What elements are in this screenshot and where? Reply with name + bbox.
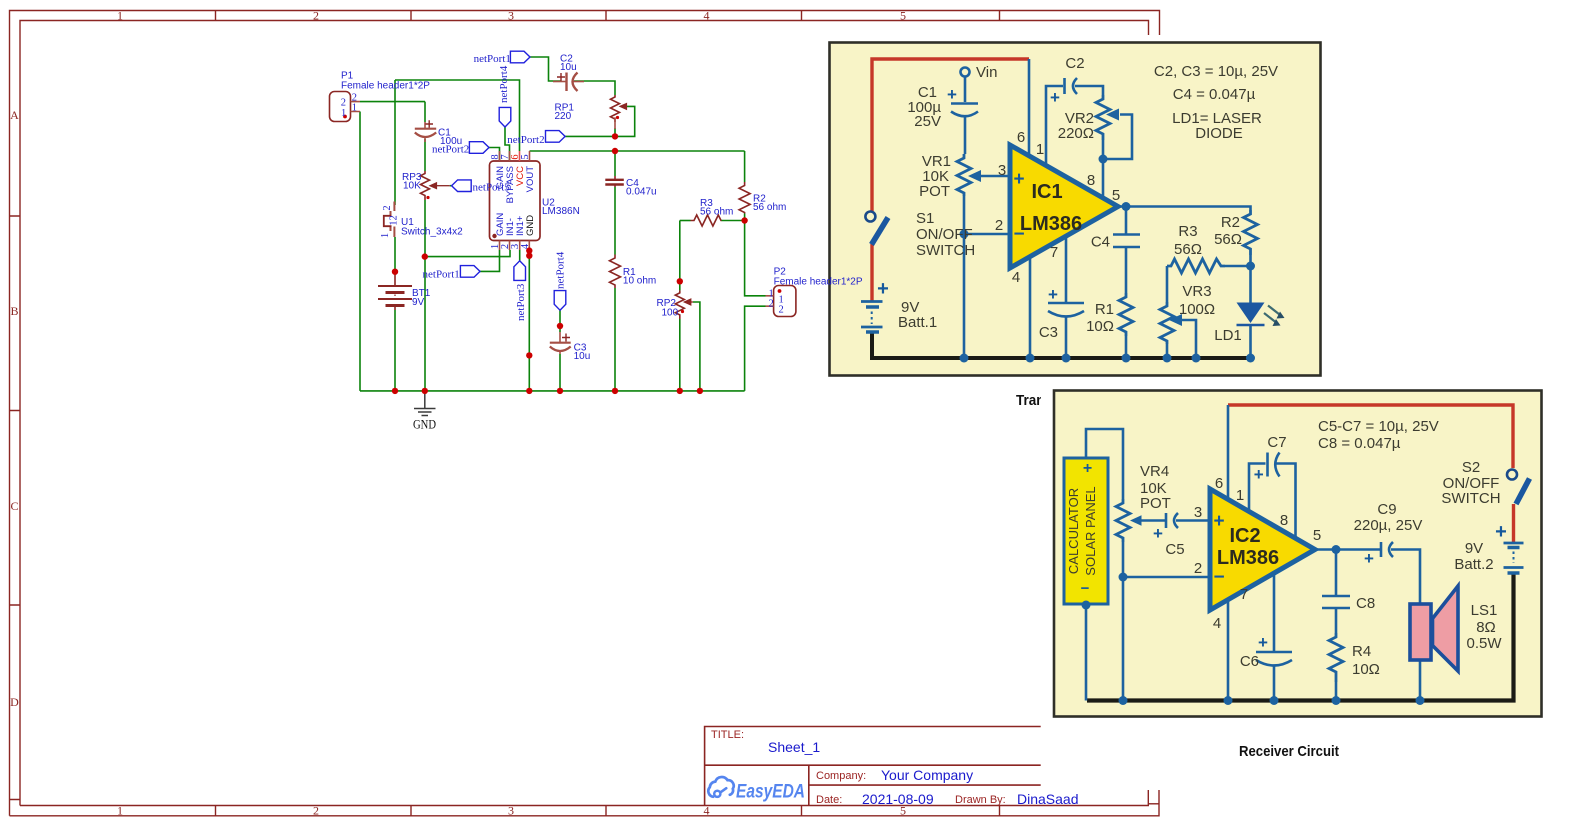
- svg-text:8Ω: 8Ω: [1476, 619, 1496, 636]
- svg-text:S1: S1: [916, 210, 934, 227]
- svg-text:5: 5: [1313, 527, 1321, 544]
- svg-text:+: +: [1258, 633, 1268, 652]
- svg-text:9V: 9V: [1465, 540, 1483, 557]
- svg-text:4: 4: [1012, 269, 1020, 286]
- svg-text:+: +: [1495, 521, 1507, 543]
- svg-text:LD1: LD1: [1214, 327, 1242, 344]
- svg-text:Vin: Vin: [976, 64, 997, 81]
- svg-text:10u: 10u: [560, 62, 577, 73]
- svg-text:IC1: IC1: [1031, 181, 1062, 203]
- svg-text:1: 1: [352, 103, 357, 114]
- svg-text:SWITCH: SWITCH: [916, 242, 975, 259]
- svg-text:C7: C7: [1267, 434, 1286, 451]
- svg-text:3: 3: [998, 162, 1006, 179]
- svg-text:2: 2: [341, 98, 346, 109]
- svg-text:LM386: LM386: [1217, 547, 1279, 569]
- svg-text:A: A: [10, 108, 19, 122]
- svg-text:POT: POT: [919, 183, 950, 200]
- svg-text:SWITCH: SWITCH: [1441, 490, 1500, 507]
- svg-text:Batt.2: Batt.2: [1454, 556, 1493, 573]
- svg-text:+: +: [1050, 88, 1060, 107]
- svg-text:4: 4: [704, 9, 710, 23]
- svg-text:IC2: IC2: [1229, 525, 1260, 547]
- svg-text:2: 2: [313, 804, 319, 818]
- svg-text:1: 1: [1236, 487, 1244, 504]
- svg-text:R2: R2: [1221, 214, 1240, 231]
- svg-text:Female header1*2P: Female header1*2P: [341, 81, 430, 92]
- svg-text:Female header1*2P: Female header1*2P: [774, 277, 863, 288]
- svg-text:1: 1: [380, 233, 391, 238]
- svg-text:C3: C3: [1039, 324, 1058, 341]
- svg-text:220Ω: 220Ω: [1058, 125, 1094, 142]
- svg-text:netPort1: netPort1: [423, 269, 460, 281]
- svg-text:10 ohm: 10 ohm: [623, 276, 656, 287]
- svg-text:netPort2: netPort2: [507, 134, 544, 146]
- svg-text:+: +: [1254, 465, 1264, 484]
- svg-text:4: 4: [704, 804, 710, 818]
- svg-text:6: 6: [1215, 475, 1223, 492]
- svg-text:10K: 10K: [403, 181, 421, 192]
- svg-text:B: B: [10, 304, 18, 318]
- svg-text:8: 8: [1280, 512, 1288, 529]
- svg-text:56Ω: 56Ω: [1214, 231, 1242, 248]
- svg-text:C: C: [10, 499, 18, 513]
- svg-text:netPort1: netPort1: [474, 53, 511, 65]
- svg-text:Switch_3x4x2: Switch_3x4x2: [401, 227, 463, 238]
- svg-text:+: +: [1213, 511, 1224, 532]
- svg-text:C4 = 0.047µ: C4 = 0.047µ: [1173, 86, 1256, 103]
- svg-text:D: D: [10, 695, 19, 709]
- svg-text:100: 100: [662, 308, 679, 319]
- svg-text:C5: C5: [1165, 541, 1184, 558]
- svg-text:C8 = 0.047µ: C8 = 0.047µ: [1318, 435, 1401, 452]
- svg-text:C5-C7 = 10µ, 25V: C5-C7 = 10µ, 25V: [1318, 418, 1439, 435]
- svg-text:Sheet_1: Sheet_1: [768, 739, 820, 755]
- svg-text:+: +: [1364, 549, 1374, 568]
- svg-text:−: −: [1213, 567, 1224, 588]
- svg-text:56Ω: 56Ω: [1174, 241, 1202, 258]
- svg-text:−: −: [1013, 224, 1024, 245]
- svg-text:+: +: [1153, 524, 1163, 543]
- svg-text:5: 5: [900, 9, 906, 23]
- svg-text:1: 1: [117, 9, 123, 23]
- svg-text:2: 2: [382, 205, 393, 210]
- svg-text:−: −: [1081, 580, 1090, 597]
- svg-text:EasyEDA: EasyEDA: [736, 782, 805, 803]
- svg-text:56 ohm: 56 ohm: [753, 202, 786, 213]
- svg-text:POT: POT: [1140, 495, 1171, 512]
- svg-text:+: +: [947, 85, 957, 104]
- svg-text:4: 4: [1213, 615, 1221, 632]
- svg-text:CALCULATOR: CALCULATOR: [1066, 488, 1081, 574]
- svg-text:C9: C9: [1377, 501, 1396, 518]
- svg-text:C2: C2: [1065, 55, 1084, 72]
- svg-text:10u: 10u: [574, 351, 591, 362]
- svg-text:2: 2: [1194, 560, 1202, 577]
- svg-text:220µ, 25V: 220µ, 25V: [1354, 517, 1423, 534]
- svg-text:7: 7: [1050, 244, 1058, 261]
- svg-text:4: 4: [520, 243, 531, 249]
- svg-text:VR4: VR4: [1140, 463, 1169, 480]
- svg-text:R3: R3: [1178, 223, 1197, 240]
- svg-text:C6: C6: [1240, 653, 1259, 670]
- svg-text:GND: GND: [525, 215, 536, 236]
- svg-text:C2, C3 = 10µ, 25V: C2, C3 = 10µ, 25V: [1154, 63, 1278, 80]
- svg-text:56 ohm: 56 ohm: [700, 207, 733, 218]
- svg-text:3: 3: [508, 804, 514, 818]
- svg-text:TITLE:: TITLE:: [711, 729, 744, 741]
- svg-text:25V: 25V: [914, 113, 941, 130]
- svg-text:LS1: LS1: [1471, 602, 1498, 619]
- svg-text:3: 3: [1194, 504, 1202, 521]
- svg-text:7: 7: [1240, 586, 1248, 603]
- svg-text:R1: R1: [1095, 301, 1114, 318]
- svg-text:0.047u: 0.047u: [626, 187, 657, 198]
- svg-text:C8: C8: [1356, 595, 1375, 612]
- svg-text:netPort2: netPort2: [432, 144, 469, 156]
- svg-text:6: 6: [1017, 129, 1025, 146]
- svg-text:10Ω: 10Ω: [1352, 661, 1380, 678]
- svg-text:C4: C4: [1091, 234, 1110, 251]
- svg-text:2: 2: [995, 217, 1003, 234]
- svg-text:8: 8: [1087, 172, 1095, 189]
- svg-text:DinaSaad: DinaSaad: [1017, 791, 1079, 807]
- svg-text:Batt.1: Batt.1: [898, 314, 937, 331]
- svg-text:3: 3: [508, 9, 514, 23]
- svg-text:2021-08-09: 2021-08-09: [862, 791, 934, 807]
- svg-text:2: 2: [769, 299, 774, 310]
- svg-text:Date:: Date:: [816, 794, 842, 806]
- svg-text:1: 1: [341, 108, 346, 119]
- svg-text:2: 2: [779, 305, 784, 316]
- svg-text:12: 12: [389, 215, 400, 226]
- svg-text:220: 220: [555, 111, 572, 122]
- svg-text:Drawn By:: Drawn By:: [955, 794, 1006, 806]
- svg-text:LM386: LM386: [1020, 213, 1082, 235]
- svg-text:GND: GND: [413, 417, 436, 432]
- svg-text:Company:: Company:: [816, 770, 866, 782]
- svg-text:1: 1: [117, 804, 123, 818]
- svg-text:0.5W: 0.5W: [1466, 635, 1502, 652]
- svg-text:2: 2: [313, 9, 319, 23]
- svg-text:Your Company: Your Company: [881, 767, 973, 783]
- svg-text:+: +: [877, 278, 889, 300]
- svg-text:10Ω: 10Ω: [1086, 318, 1114, 335]
- svg-text:+: +: [1048, 285, 1058, 304]
- svg-text:ON/OFF: ON/OFF: [916, 226, 973, 243]
- svg-text:S2: S2: [1462, 459, 1480, 476]
- svg-text:netPort4: netPort4: [498, 65, 510, 103]
- svg-text:+: +: [1083, 460, 1092, 477]
- svg-text:Receiver Circuit: Receiver Circuit: [1239, 743, 1339, 760]
- svg-text:DIODE: DIODE: [1195, 125, 1243, 142]
- svg-text:netPort3: netPort3: [515, 283, 527, 321]
- svg-text:5: 5: [1112, 187, 1120, 204]
- svg-text:5: 5: [520, 154, 531, 159]
- svg-text:LM386N: LM386N: [542, 206, 580, 217]
- svg-text:R4: R4: [1352, 643, 1371, 660]
- svg-text:100Ω: 100Ω: [1179, 301, 1215, 318]
- svg-text:1: 1: [1036, 141, 1044, 158]
- svg-text:VOUT: VOUT: [525, 166, 536, 193]
- svg-text:9V: 9V: [412, 297, 425, 308]
- svg-text:VR3: VR3: [1182, 283, 1211, 300]
- svg-text:SOLAR PANEL: SOLAR PANEL: [1083, 486, 1098, 575]
- svg-text:+: +: [1013, 169, 1024, 190]
- svg-text:netPort4: netPort4: [555, 251, 567, 289]
